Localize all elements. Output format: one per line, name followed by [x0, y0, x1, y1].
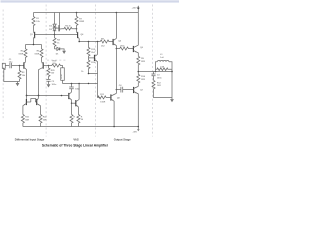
svg-text:1u0: 1u0 — [160, 57, 164, 59]
svg-text:100R: 100R — [18, 53, 23, 55]
wire driver emitter down — [115, 49, 117, 94]
diode D2 D3 (bias chain) — [54, 13, 56, 25]
transistor Q9 (Vbe multiplier) — [97, 42, 99, 55]
junction rail-R7 — [76, 12, 78, 14]
transistor Q5 (driver) — [112, 39, 114, 45]
svg-text:Schematic of Three Stage Linea: Schematic of Three Stage Linear Amplifie… — [42, 143, 109, 147]
transistor Q13 (mirror left) — [25, 99, 27, 105]
transistor Q2 (input pair left) — [23, 62, 25, 68]
svg-text:56R: 56R — [43, 119, 47, 121]
svg-text:Differential Input Stage: Differential Input Stage — [15, 137, 45, 141]
svg-text:100n: 100n — [157, 78, 162, 80]
wire VAS lower node — [63, 84, 101, 98]
capacitor C1 (input coupling) — [10, 63, 24, 68]
svg-text:C4: C4 — [119, 84, 123, 87]
transistor Q10 (VAS) — [68, 93, 70, 99]
wire mirror bus — [27, 95, 69, 97]
ground (Zobel) — [171, 98, 173, 100]
transistor Q12 (input pair right) — [42, 62, 44, 68]
resistor R11 (Q8 base) — [98, 96, 111, 99]
svg-text:Q1: Q1 — [30, 34, 34, 36]
resistor R5 (degeneration right) — [40, 45, 43, 62]
transistor Q11 (VAS cascade) — [72, 102, 76, 104]
svg-text:56: 56 — [81, 119, 84, 121]
junction tail — [33, 44, 35, 46]
svg-text:Q5: Q5 — [118, 41, 122, 43]
svg-text:100R: 100R — [34, 53, 39, 55]
svg-text:Q7: Q7 — [140, 89, 144, 91]
svg-text:R11: R11 — [100, 94, 105, 96]
svg-text:10k: 10k — [36, 21, 40, 23]
resistor R3 (degeneration left) — [24, 45, 27, 62]
svg-text:R9: R9 — [141, 58, 145, 60]
svg-text:0R5: 0R5 — [141, 61, 146, 63]
svg-text:100u: 100u — [52, 84, 57, 86]
svg-text:1k: 1k — [57, 43, 60, 45]
svg-text:R14: R14 — [141, 75, 146, 78]
wire tail rail — [26, 44, 42, 46]
transistor Q6 (upper output) — [132, 46, 134, 52]
stage boundary dashed line output right — [152, 5, 154, 137]
resistor R14 (emitter 0R5 lower) — [137, 72, 140, 87]
svg-text:2k2: 2k2 — [101, 46, 105, 48]
wire multiplier bottom — [89, 73, 98, 75]
svg-text:Output Stage: Output Stage — [114, 137, 131, 141]
resistor R18 (VAS emitter right) — [77, 115, 80, 127]
svg-text:R4: R4 — [57, 39, 61, 42]
svg-text:+35V: +35V — [132, 8, 138, 10]
svg-text:C2: C2 — [52, 81, 56, 83]
resistor R21 (mirror emitter left) — [21, 115, 24, 127]
svg-text:10R: 10R — [160, 66, 164, 68]
svg-text:1k: 1k — [81, 71, 84, 73]
transistor Q8 (lower driver) — [110, 94, 112, 100]
svg-text:R: R — [81, 116, 83, 118]
resistor R4 — [53, 35, 56, 49]
transistor Q4 (VAS top) — [77, 32, 79, 38]
diode D1 — [55, 47, 65, 51]
svg-text:Q6: Q6 — [140, 47, 144, 49]
wire output node — [138, 71, 172, 73]
svg-text:Q4: Q4 — [81, 33, 85, 36]
transistor Q1 (tail current source) — [34, 32, 36, 38]
svg-text:R12: R12 — [157, 82, 162, 84]
resistor R20 (feedback shunt) — [47, 66, 50, 80]
svg-text:56R: 56R — [25, 119, 29, 121]
svg-text:10k: 10k — [22, 75, 26, 77]
svg-text:100R: 100R — [100, 101, 105, 103]
svg-text:R20: R20 — [51, 70, 56, 72]
wire feedback node — [48, 65, 50, 67]
svg-text:R21: R21 — [25, 117, 30, 119]
wire output to ground branch — [171, 72, 173, 98]
svg-text:D3: D3 — [49, 29, 53, 31]
wire Q1 base line to VAS — [35, 34, 78, 36]
component feedback network box — [61, 68, 65, 81]
svg-text:L1: L1 — [160, 54, 163, 56]
resistor R15 (multiplier upper) — [87, 42, 90, 58]
resistor R8 — [100, 40, 113, 43]
svg-text:R22: R22 — [43, 117, 48, 119]
svg-text:R6 1k: R6 1k — [65, 25, 71, 27]
decorative top blue bar — [1, 1, 180, 2]
svg-text:R: R — [73, 116, 75, 118]
stage boundary dashed line input/VAS — [45, 5, 47, 137]
svg-text:2k2: 2k2 — [91, 52, 95, 54]
resistor R16 (multiplier lower) — [87, 58, 90, 74]
resistor R9 (emitter 0R5 upper) — [137, 56, 140, 71]
resistor R7 (Q4 emitter) — [75, 13, 78, 32]
stage boundary dashed line VAS/output — [95, 5, 97, 137]
inductor L1 — [156, 60, 173, 71]
svg-text:VAS: VAS — [73, 137, 79, 141]
transistor Q7 (lower output) — [133, 87, 135, 93]
resistor R17 (VAS emitter left) — [70, 115, 73, 127]
capacitor C3 (Zobel) — [151, 72, 155, 81]
svg-text:D2: D2 — [49, 26, 53, 28]
resistor R6 (bias link) — [62, 27, 77, 30]
wire +V rail — [34, 12, 139, 14]
wire Q4 collector line — [79, 41, 100, 43]
resistor R2 (input bias) — [19, 65, 21, 67]
wire -V rail — [23, 126, 138, 128]
resistor R12 (Zobel) — [152, 80, 172, 97]
capacitor C2 (feedback) — [46, 79, 50, 81]
emitter arrows — [24, 62, 26, 63]
node +35V supply — [137, 8, 139, 13]
svg-text:Q8: Q8 — [117, 98, 121, 100]
svg-text:1k0: 1k0 — [51, 73, 55, 75]
node -35V supply — [137, 127, 139, 130]
svg-text:100p: 100p — [75, 88, 80, 90]
ground (feedback) — [47, 84, 51, 87]
svg-text:10R: 10R — [157, 85, 161, 87]
resistor R10 — [116, 47, 133, 50]
svg-text:D1: D1 — [56, 54, 60, 56]
connector input — [2, 63, 5, 68]
stage boundary dashed line left — [2, 10, 4, 119]
svg-text:R2: R2 — [22, 72, 26, 74]
capacitor C4 (base coupling) — [116, 87, 133, 93]
svg-text:0R5: 0R5 — [141, 79, 146, 81]
resistor R22 (mirror emitter right) — [39, 115, 42, 127]
resistor R19 (feedback) — [49, 64, 63, 68]
junction rail-Q5 — [116, 12, 118, 14]
resistor R13 (parallel damping) — [156, 68, 173, 71]
transistor Q3 (bias) — [59, 13, 61, 25]
wire input ground return — [4, 68, 20, 81]
svg-text:R7: R7 — [79, 18, 83, 20]
resistor R1 (tail source collector load) — [32, 13, 35, 32]
svg-text:220R: 220R — [79, 21, 84, 23]
svg-text:10u: 10u — [9, 62, 13, 64]
dashed sub-boundary horizontal — [47, 59, 67, 61]
svg-text:100u: 100u — [61, 74, 63, 79]
svg-text:-35V: -35V — [133, 131, 138, 133]
ground (input) — [17, 82, 19, 84]
svg-text:C3: C3 — [157, 75, 161, 77]
svg-text:R1: R1 — [36, 18, 40, 20]
ground (bias) — [62, 51, 66, 54]
transistor Q14 (mirror right) — [36, 99, 38, 105]
